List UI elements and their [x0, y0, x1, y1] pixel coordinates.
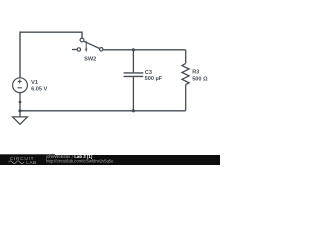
svg-text:500 µF: 500 µF — [145, 76, 163, 82]
svg-text:C3: C3 — [145, 70, 152, 76]
svg-text:R3: R3 — [192, 70, 199, 76]
svg-text:LAB: LAB — [26, 160, 36, 165]
svg-text:http://circuitlab.com/c/5wfdrw: http://circuitlab.com/c/5wfdrw2v5q5e — [46, 159, 114, 164]
svg-text:SW2: SW2 — [84, 56, 96, 62]
svg-text:V1: V1 — [31, 80, 38, 86]
svg-text:6.05 V: 6.05 V — [31, 86, 47, 92]
svg-text:500 Ω: 500 Ω — [192, 77, 208, 83]
